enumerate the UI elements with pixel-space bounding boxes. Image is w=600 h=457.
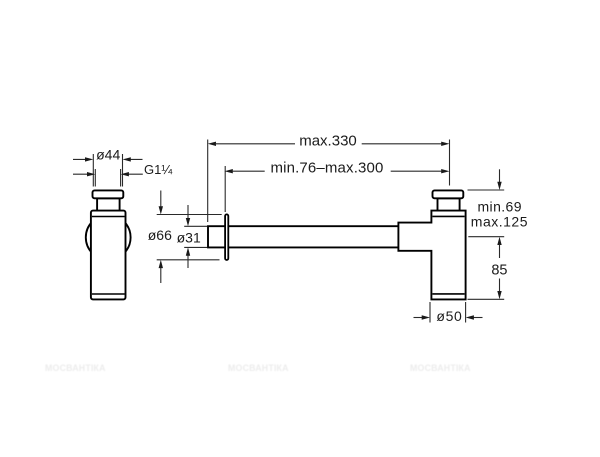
right view: top flange [433,190,464,198]
dimension min.76-max.300: left extension line (wall flange) [224,166,226,212]
svg-text:min.69: min.69 [478,199,522,215]
dimension o31: lower arrow [187,255,189,268]
left view: top flange [93,190,124,198]
dimension 85: lower arrow (points down to body bottom) [499,279,501,292]
svg-text:85: 85 [491,263,507,279]
svg-text:ø44: ø44 [96,147,120,163]
svg-text:ø66: ø66 [148,227,172,243]
dimension o31: upper extension line [184,225,207,227]
dimension max.330: right extension line (trap centre) [449,140,451,186]
dimension min.69/max.125: down arrow [499,169,501,182]
svg-text:МОСВАНТІКА: МОСВАНТІКА [228,363,289,373]
left view: trap body [91,211,126,300]
right view: housing collar line [432,215,464,217]
dimension 85: bottom extension line [468,298,505,300]
dimension G1 1/4: right arrow [125,173,143,175]
dimension 85: upper arrow (points up to centreline) [497,237,501,245]
dimension o31: upper arrow [187,205,189,218]
dimension o44: extension lines [92,154,94,187]
svg-text:min.76–max.300: min.76–max.300 [271,160,384,177]
dimension o50: left arrow [414,317,423,319]
dimension o44: right arrow [126,158,142,160]
dimension o50: extension lines [429,302,431,323]
dimension o66: lower extension line [157,259,220,261]
svg-text:МОСВАНТІКА: МОСВАНТІКА [45,363,106,373]
right view: threaded neck [438,198,460,212]
left view: flange circle o66 (behind body) [86,215,131,260]
dimension max.330: left extension line (pipe end) [207,140,209,223]
svg-text:МОСВАНТІКА: МОСВАНТІКА [410,363,471,373]
dimension max.330: line with arrows [208,142,216,146]
right view: trap housing with inlet arm (L outline) [398,211,465,300]
svg-text:G1¼: G1¼ [144,162,172,177]
dimension o66: upper arrow [160,191,162,207]
wall flange on pipe [225,214,228,260]
dimension o66: upper extension line [157,214,222,216]
dimension o66: lower arrow [160,268,162,283]
dimension o50: right arrow [473,317,483,319]
left view: body collar line [92,216,125,218]
left view: threaded neck [97,198,120,212]
svg-text:max.330: max.330 [299,132,357,149]
svg-text:max.125: max.125 [471,214,528,230]
dimension o44: left arrow [73,158,90,160]
shared extension line at pipe centreline [468,236,504,238]
svg-text:ø31: ø31 [177,230,201,246]
dimension G1 1/4: left arrow [73,173,92,175]
dimension G1 1/4: extension lines [94,169,96,187]
left view: body bottom cap line [92,293,125,295]
dimension min.69/max.125: top extension line [468,189,505,191]
right view: housing bottom cap line [432,293,464,295]
dimension o31: lower extension line [184,246,207,248]
horizontal inlet pipe [208,226,398,247]
svg-text:ø50: ø50 [436,308,462,324]
dimension min.76-max.300: line with arrows [225,169,233,173]
